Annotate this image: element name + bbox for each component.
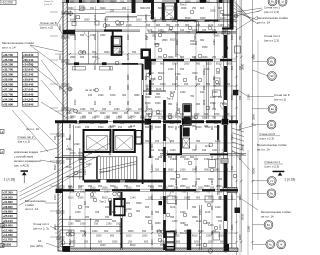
svg-text:450: 450 (132, 51, 137, 54)
svg-text:900: 900 (156, 24, 161, 27)
svg-text:2000: 2000 (176, 39, 179, 45)
svg-text:3960: 3960 (151, 124, 154, 130)
svg-text:300: 300 (158, 185, 163, 188)
svg-text:600: 600 (186, 187, 191, 190)
svg-text:1500: 1500 (160, 244, 166, 247)
section marker 1 right (273, 171, 296, 182)
svg-text:2800: 2800 (145, 14, 148, 20)
right margin rotated dims (241, 53, 256, 232)
svg-text:Металлические стойки: Металлические стойки (257, 143, 287, 147)
svg-text:+36.640: +36.640 (23, 53, 34, 57)
svg-text:300: 300 (200, 39, 205, 42)
svg-text:600: 600 (195, 40, 198, 45)
svg-text:1000: 1000 (214, 158, 220, 161)
label stena tip8 rt (248, 93, 290, 102)
svg-text:900: 900 (226, 83, 231, 86)
svg-text:Металлические стойки: Металлические стойки (2, 41, 34, 45)
svg-text:+25.640: +25.640 (23, 92, 34, 96)
svg-text:1000: 1000 (80, 51, 86, 54)
svg-text:760: 760 (222, 149, 227, 152)
svg-text:2000: 2000 (208, 240, 214, 243)
svg-text:металл ограждения: металл ограждения (14, 159, 41, 163)
svg-text:1000: 1000 (110, 94, 116, 97)
svg-text:300: 300 (88, 112, 93, 115)
svg-text:3960: 3960 (168, 185, 174, 188)
dimension tick marks (69, 20, 254, 244)
svg-text:250: 250 (147, 56, 152, 59)
svg-text:2800: 2800 (252, 53, 256, 60)
svg-text:910: 910 (203, 85, 206, 90)
svg-text:250: 250 (110, 10, 115, 13)
svg-text:3900: 3900 (185, 1, 191, 4)
svg-text:(см п.п 2,3): (см п.п 2,3) (260, 136, 275, 140)
core wall x143 y119-184 (142, 119, 144, 184)
svg-text:450: 450 (124, 112, 129, 115)
svg-text:Стена тип 8: Стена тип 8 (260, 132, 276, 136)
ladder shaft x166 y231 (166, 232, 175, 251)
svg-text:+10.200: +10.200 (1, 1, 13, 5)
svg-text:350: 350 (196, 140, 201, 143)
svg-text:2800: 2800 (252, 113, 256, 120)
svg-text:450: 450 (105, 216, 110, 219)
svg-text:1000: 1000 (74, 99, 77, 105)
svg-text:300: 300 (155, 169, 160, 172)
svg-text:1500: 1500 (98, 126, 104, 129)
svg-text:660: 660 (158, 235, 163, 238)
svg-text:1500: 1500 (69, 159, 72, 165)
right black block y90 (233, 90, 239, 96)
dimension line grid (55, 0, 258, 255)
svg-text:900: 900 (214, 122, 219, 125)
svg-text:900: 900 (224, 135, 227, 140)
svg-text:250: 250 (192, 7, 197, 10)
svg-text:300: 300 (224, 65, 227, 70)
right corridor wall (222, 0, 230, 250)
svg-text:1000: 1000 (116, 117, 122, 120)
svg-text:2190: 2190 (104, 191, 110, 194)
svg-text:1120: 1120 (203, 99, 206, 105)
svg-text:Стена тип 8: Стена тип 8 (40, 21, 57, 25)
svg-text:+25.700: +25.700 (3, 92, 14, 96)
fixture box x234 y46 (235, 46, 241, 53)
svg-text:2800: 2800 (54, 224, 57, 230)
wall y190 (58, 189, 238, 191)
svg-text:3960: 3960 (127, 84, 130, 90)
label metal stoika rt (257, 16, 288, 25)
svg-text:3960: 3960 (134, 94, 140, 97)
svg-text:2190: 2190 (204, 158, 210, 161)
bubble Ds (253, 120, 276, 129)
svg-text:+24.300: +24.300 (3, 97, 14, 101)
svg-text:2800: 2800 (70, 56, 76, 59)
top wall bar x151 (151, 0, 154, 20)
svg-text:450: 450 (145, 1, 150, 4)
label metal stoiki rt mid (257, 143, 287, 151)
elevation table lower-left (2, 190, 17, 246)
svg-text:910: 910 (92, 117, 97, 120)
label stena tip1 rt1 (256, 6, 280, 15)
right black strip y27.5 (222, 27, 234, 29)
hatched block x221 y158 (221, 158, 228, 163)
svg-text:250: 250 (219, 195, 222, 200)
svg-text:1810: 1810 (206, 63, 212, 66)
svg-text:2190: 2190 (98, 94, 104, 97)
svg-text:600: 600 (136, 185, 141, 188)
svg-text:150: 150 (186, 31, 191, 34)
circle cross x236 y16 (233, 13, 238, 18)
svg-text:350: 350 (145, 140, 150, 143)
svg-text:900: 900 (196, 103, 201, 106)
svg-text:1200: 1200 (202, 117, 208, 120)
svg-text:+28.500: +28.500 (3, 83, 14, 87)
svg-text:1200: 1200 (75, 211, 81, 214)
svg-text:3960: 3960 (204, 185, 210, 188)
svg-text:1000: 1000 (231, 94, 234, 100)
svg-text:+17.400: +17.400 (3, 228, 14, 232)
bubble top partial 2 (278, 0, 287, 6)
svg-text:+29.900: +29.900 (3, 78, 14, 82)
svg-text:910: 910 (218, 191, 223, 194)
svg-text:+27.100: +27.100 (3, 87, 14, 91)
svg-text:1200: 1200 (54, 194, 57, 200)
svg-text:910: 910 (222, 117, 227, 120)
svg-text:2190: 2190 (74, 143, 80, 146)
svg-text:2800: 2800 (182, 178, 188, 181)
svg-text:2800: 2800 (112, 112, 118, 115)
svg-text:(см п.п 2,3): (см п.п 2,3) (264, 10, 279, 14)
partition y154 right (160, 154, 246, 156)
svg-text:150: 150 (84, 230, 87, 235)
svg-text:600: 600 (195, 180, 198, 185)
svg-text:Тип 2: Тип 2 (167, 97, 174, 101)
svg-text:760: 760 (59, 85, 62, 90)
svg-text:900: 900 (176, 75, 179, 80)
svg-text:660: 660 (104, 19, 109, 22)
svg-text:1200: 1200 (180, 91, 186, 94)
svg-text:3960: 3960 (204, 169, 210, 172)
partition x73 y125-188 (73, 125, 75, 188)
bottom exterior wall (63, 230, 238, 252)
svg-text:150: 150 (195, 75, 198, 80)
svg-text:2000: 2000 (231, 34, 234, 40)
bubble Zhs (253, 70, 277, 80)
svg-text:760: 760 (231, 115, 234, 120)
svg-text:1200: 1200 (127, 14, 130, 20)
svg-text:1120: 1120 (204, 20, 210, 23)
svg-text:1000: 1000 (126, 108, 132, 111)
svg-text:660: 660 (110, 235, 115, 238)
svg-text:1200: 1200 (74, 34, 77, 40)
top wall stub (thick) (132, 0, 136, 13)
svg-text:1810: 1810 (203, 69, 206, 75)
svg-text:350: 350 (162, 20, 167, 23)
svg-text:250: 250 (124, 185, 129, 188)
svg-text:350: 350 (228, 24, 233, 27)
left edge cut boxes (0, 130, 4, 248)
svg-text:+34.100: +34.100 (3, 63, 14, 67)
svg-text:250: 250 (85, 216, 90, 219)
svg-text:3900: 3900 (92, 56, 98, 59)
partition x98 y31-64 (97, 31, 99, 64)
svg-text:3960: 3960 (68, 7, 74, 10)
svg-text:910: 910 (105, 206, 110, 209)
svg-text:150: 150 (216, 83, 221, 86)
svg-text:2140: 2140 (175, 73, 181, 76)
right exterior black wall top (230, 0, 234, 28)
svg-text:2000: 2000 (181, 7, 187, 10)
svg-text:2000: 2000 (102, 187, 108, 190)
svg-text:2000: 2000 (184, 63, 190, 66)
svg-text:1120: 1120 (170, 206, 176, 209)
svg-text:600: 600 (222, 56, 227, 59)
rotated dimension texts (54, 14, 242, 245)
svg-text:660: 660 (195, 165, 198, 170)
thick wall x112 y32-55 (112, 32, 114, 56)
svg-text:3900: 3900 (75, 220, 81, 223)
svg-text:660: 660 (160, 63, 165, 66)
svg-text:350: 350 (211, 205, 214, 210)
partition x207 y61-119 (206, 61, 208, 119)
svg-text:600: 600 (224, 210, 227, 215)
bubble top partial 1 (268, 0, 277, 6)
corridor line y155 (62, 154, 84, 156)
elevation table upper-left col2 (22, 52, 38, 106)
svg-text:1810: 1810 (172, 63, 178, 66)
svg-text:910: 910 (69, 123, 72, 128)
svg-text:+32.640: +32.640 (23, 68, 34, 72)
svg-text:8510: 8510 (239, 154, 242, 160)
svg-text:1810: 1810 (196, 244, 202, 247)
svg-text:450: 450 (70, 1, 75, 4)
svg-text:8510: 8510 (168, 126, 174, 129)
svg-text:8510: 8510 (148, 31, 154, 34)
svg-text:900: 900 (170, 140, 175, 143)
circle pair y231 (157, 230, 165, 234)
svg-text:450: 450 (196, 178, 201, 181)
svg-text:2800: 2800 (90, 1, 96, 4)
svg-text:+23.100: +23.100 (3, 219, 14, 223)
svg-text:450: 450 (98, 185, 103, 188)
svg-text:1000: 1000 (66, 148, 72, 151)
svg-text:2000: 2000 (224, 94, 227, 100)
svg-text:660: 660 (176, 240, 181, 243)
svg-text:1000: 1000 (126, 208, 132, 211)
svg-text:2610: 2610 (241, 213, 245, 220)
svg-text:760: 760 (206, 191, 211, 194)
bubble Zh2 (277, 240, 286, 249)
svg-text:8510: 8510 (146, 64, 149, 70)
svg-text:2800: 2800 (146, 104, 149, 110)
svg-text:1000: 1000 (138, 108, 144, 111)
svg-text:2140: 2140 (126, 24, 132, 27)
svg-text:3900: 3900 (168, 56, 174, 59)
svg-text:2140: 2140 (213, 102, 216, 108)
top inner face line (62, 13, 106, 15)
svg-text:150: 150 (85, 126, 90, 129)
elevator shaft 1 (84, 130, 111, 152)
label stena tip 8 top (39, 10, 66, 40)
label stena tip1 rt3 (264, 160, 283, 168)
svg-text:(см п.п 2,3): (см п.п 2,3) (264, 39, 279, 43)
svg-text:1810: 1810 (155, 126, 161, 129)
svg-text:350: 350 (127, 100, 130, 105)
svg-text:450: 450 (158, 56, 163, 59)
svg-text:(см. АР2): (см. АР2) (30, 244, 43, 248)
svg-text:2000: 2000 (96, 235, 102, 238)
svg-text:150: 150 (216, 72, 221, 75)
svg-text:300: 300 (92, 51, 97, 54)
stair room left wall (82, 152, 84, 181)
top axis tiny texts (44, 1, 54, 6)
wall y177 left (66, 176, 83, 178)
svg-text:450: 450 (224, 230, 229, 233)
svg-text:8510: 8510 (54, 164, 57, 170)
svg-text:+22.900: +22.900 (3, 102, 14, 106)
svg-text:150: 150 (175, 24, 180, 27)
svg-text:150: 150 (172, 20, 177, 23)
svg-text:760: 760 (212, 117, 217, 120)
svg-text:1120: 1120 (196, 220, 202, 223)
right diag hatch mid (232, 128, 245, 155)
svg-text:900: 900 (231, 65, 234, 70)
label stena tip8 rt2 (259, 132, 280, 141)
svg-text:Тип 2: Тип 2 (99, 200, 106, 204)
svg-text:910: 910 (92, 191, 97, 194)
svg-text:2000: 2000 (180, 156, 186, 159)
svg-text:10: 10 (38, 239, 42, 243)
svg-text:+35.440: +35.440 (23, 58, 34, 62)
svg-text:1500: 1500 (150, 78, 156, 81)
svg-text:600: 600 (84, 200, 87, 205)
svg-text:350: 350 (196, 24, 201, 27)
svg-text:910: 910 (102, 108, 107, 111)
svg-text:см п.п. 14: см п.п. 14 (261, 214, 274, 218)
central vertical wall x164 (163, 100, 166, 250)
svg-text:350: 350 (192, 206, 197, 209)
svg-text:600: 600 (112, 220, 117, 223)
svg-text:660: 660 (218, 7, 223, 10)
svg-text:(см п.п 2): (см п.п 2) (18, 140, 31, 144)
svg-text:8510: 8510 (130, 244, 136, 247)
fixture lower right (213, 226, 220, 240)
svg-text:760: 760 (78, 171, 83, 174)
svg-text:2000: 2000 (84, 19, 90, 22)
svg-text:900: 900 (180, 125, 185, 128)
svg-text:1200: 1200 (168, 117, 174, 120)
bubble Is (253, 57, 276, 66)
svg-text:1200: 1200 (172, 220, 178, 223)
partition y226 left (55, 226, 122, 228)
svg-text:250: 250 (95, 220, 100, 223)
svg-text:600: 600 (168, 156, 173, 159)
svg-text:1000: 1000 (92, 230, 98, 233)
svg-text:660: 660 (88, 152, 93, 155)
furniture rects top (73, 67, 113, 71)
svg-text:1810: 1810 (74, 64, 77, 70)
svg-text:150: 150 (224, 240, 227, 245)
svg-text:3900: 3900 (110, 1, 116, 4)
svg-text:2800: 2800 (94, 64, 97, 70)
svg-text:2000: 2000 (78, 152, 84, 155)
svg-text:350: 350 (120, 122, 125, 125)
svg-text:8510: 8510 (145, 102, 151, 105)
svg-text:600: 600 (222, 187, 227, 190)
svg-text:450: 450 (54, 135, 57, 140)
svg-text:3900: 3900 (100, 7, 106, 10)
bubble Bs (253, 220, 273, 229)
svg-text:1000: 1000 (80, 223, 86, 226)
svg-text:660: 660 (109, 65, 112, 70)
svg-text:1000: 1000 (148, 185, 154, 188)
wall x142 y64-119 (142, 64, 144, 119)
wall y59-61 (145, 59, 236, 61)
bubble Es (253, 104, 277, 113)
svg-text:2140: 2140 (130, 197, 136, 200)
svg-text:1200: 1200 (218, 24, 224, 27)
svg-text:1200: 1200 (239, 234, 242, 240)
svg-text:450: 450 (69, 215, 72, 220)
label metal stoiki top (2, 41, 63, 70)
svg-text:2140: 2140 (168, 68, 174, 71)
shaft side cells (136, 131, 142, 145)
svg-text:1120: 1120 (158, 117, 164, 120)
right hatched block y187 (227, 187, 237, 192)
partition x218 y125-195 (217, 125, 219, 195)
svg-text:250: 250 (212, 56, 217, 59)
svg-text:1500: 1500 (59, 54, 62, 60)
svg-text:+28.440: +28.440 (23, 83, 34, 87)
label 10 smAP2 (30, 239, 60, 248)
svg-text:2140: 2140 (172, 83, 178, 86)
svg-text:+31.240: +31.240 (23, 73, 34, 77)
svg-text:1200: 1200 (215, 140, 221, 143)
svg-text:300: 300 (151, 210, 154, 215)
svg-text:2190: 2190 (247, 225, 251, 232)
svg-text:1 (л.18): 1 (л.18) (4, 178, 16, 182)
svg-text:450: 450 (170, 216, 175, 219)
svg-text:150: 150 (150, 83, 155, 86)
svg-text:2800: 2800 (94, 34, 97, 40)
svg-text:760: 760 (199, 235, 202, 240)
svg-text:450: 450 (80, 56, 85, 59)
svg-text:900: 900 (196, 83, 201, 86)
svg-text:1000: 1000 (175, 179, 178, 185)
svg-text:Стена тип 1: Стена тип 1 (33, 222, 49, 226)
svg-text:1500: 1500 (192, 72, 198, 75)
door swing arcs (68, 31, 227, 212)
svg-text:350: 350 (109, 85, 112, 90)
svg-text:2190: 2190 (239, 124, 242, 130)
svg-text:8510: 8510 (102, 197, 108, 200)
svg-text:760: 760 (90, 108, 95, 111)
svg-text:8510: 8510 (239, 194, 242, 200)
svg-text:350: 350 (168, 103, 173, 106)
svg-text:5600: 5600 (252, 167, 256, 174)
svg-text:1810: 1810 (100, 244, 106, 247)
svg-text:3900: 3900 (163, 224, 166, 230)
svg-text:600: 600 (206, 1, 211, 4)
svg-text:600: 600 (94, 100, 97, 105)
svg-text:2000: 2000 (148, 156, 154, 159)
svg-text:2000: 2000 (202, 56, 208, 59)
elevation table upper-left col1 (2, 52, 18, 106)
svg-text:300: 300 (136, 210, 141, 213)
svg-text:350: 350 (224, 35, 227, 40)
svg-text:1200: 1200 (214, 20, 220, 23)
svg-text:+28.800: +28.800 (3, 205, 14, 209)
vent shaft x183 y104-125 (183, 104, 191, 126)
svg-text:+22.840: +22.840 (23, 102, 34, 106)
